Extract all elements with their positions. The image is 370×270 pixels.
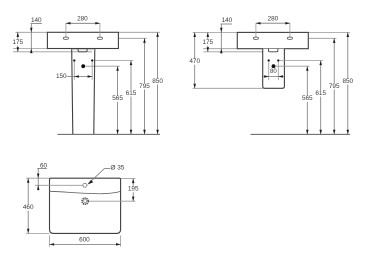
- svg-text:850: 850: [342, 78, 353, 85]
- svg-text:470: 470: [189, 58, 200, 65]
- svg-text:615: 615: [315, 90, 326, 97]
- svg-text:280: 280: [268, 16, 279, 23]
- svg-text:Ø 35: Ø 35: [110, 164, 124, 171]
- svg-text:175: 175: [12, 39, 23, 46]
- svg-text:140: 140: [31, 17, 42, 24]
- svg-text:795: 795: [329, 83, 340, 90]
- svg-text:140: 140: [222, 17, 233, 24]
- svg-text:80: 80: [270, 69, 277, 75]
- svg-text:600: 600: [79, 237, 90, 244]
- svg-text:850: 850: [152, 78, 163, 85]
- svg-text:150: 150: [56, 73, 67, 80]
- svg-text:615: 615: [126, 90, 137, 97]
- svg-text:565: 565: [302, 95, 313, 102]
- svg-text:195: 195: [128, 186, 139, 193]
- svg-text:175: 175: [202, 39, 213, 46]
- svg-text:460: 460: [23, 204, 34, 211]
- svg-text:795: 795: [139, 83, 150, 90]
- svg-text:280: 280: [77, 16, 88, 23]
- svg-text:565: 565: [112, 95, 123, 102]
